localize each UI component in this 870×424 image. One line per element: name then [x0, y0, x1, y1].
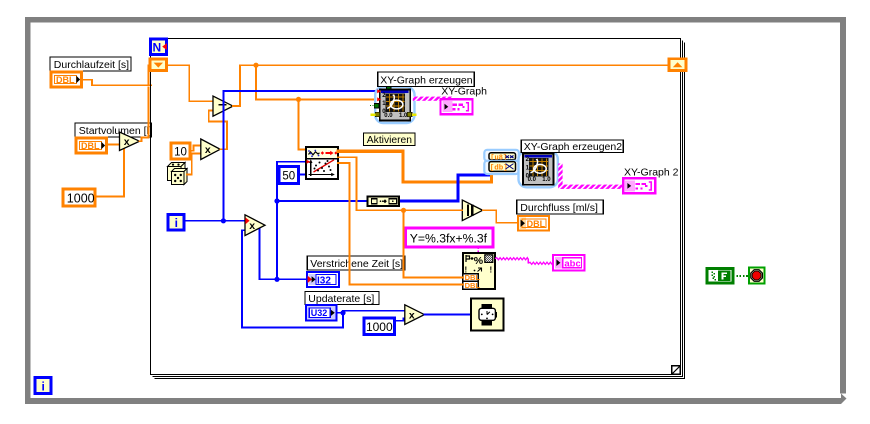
svg-text:DBL: DBL — [81, 141, 100, 151]
svg-text:1000: 1000 — [366, 320, 393, 334]
svg-text:0.0: 0.0 — [384, 113, 393, 119]
svg-text:50: 50 — [282, 171, 295, 183]
svg-text:!: ! — [490, 266, 493, 275]
svg-text:[db]: [db] — [490, 165, 508, 173]
svg-text:1000: 1000 — [67, 191, 95, 205]
svg-text:i: i — [42, 380, 45, 394]
svg-text:1.0: 1.0 — [542, 177, 551, 183]
svg-text:0.0: 0.0 — [528, 177, 537, 183]
svg-text:abc: abc — [564, 259, 580, 270]
svg-text:DBL: DBL — [465, 281, 481, 290]
svg-text:XY-Graph 2: XY-Graph 2 — [624, 166, 679, 178]
svg-text:Aktivieren: Aktivieren — [367, 135, 412, 146]
svg-text:x: x — [205, 144, 211, 156]
svg-text:Verstrichene Zeit [s]: Verstrichene Zeit [s] — [310, 258, 403, 270]
svg-text:XY-Graph erzeugen2: XY-Graph erzeugen2 — [524, 141, 622, 153]
svg-text:N: N — [152, 41, 161, 55]
svg-text:Startvolumen [l]: Startvolumen [l] — [79, 125, 152, 137]
svg-text:Durchfluss [ml/s]: Durchfluss [ml/s] — [520, 202, 598, 214]
svg-text:x: x — [249, 220, 255, 232]
svg-text:x: x — [409, 309, 415, 321]
svg-text:U32: U32 — [311, 308, 328, 318]
svg-text:DBL: DBL — [527, 219, 546, 229]
svg-text:Durchlaufzeit [s]: Durchlaufzeit [s] — [54, 59, 129, 71]
svg-text:Y=%.3fx+%.3f: Y=%.3fx+%.3f — [410, 232, 488, 246]
svg-text:i: i — [175, 216, 178, 230]
svg-text:1.0: 1.0 — [399, 113, 408, 119]
svg-text:x: x — [124, 136, 130, 148]
svg-text:XY-Graph: XY-Graph — [441, 85, 487, 97]
svg-text:%: % — [474, 255, 484, 267]
svg-text:Updaterate [s]: Updaterate [s] — [308, 293, 374, 305]
svg-text:DBL: DBL — [56, 75, 75, 85]
svg-text:10: 10 — [174, 146, 187, 158]
